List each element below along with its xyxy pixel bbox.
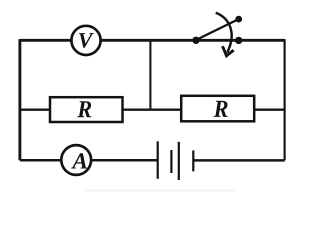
resistor R2 (right box) xyxy=(181,96,254,122)
switch closing motion arc arrow xyxy=(216,13,232,53)
scan artifact faint smudge xyxy=(85,190,235,192)
wire bottom right (battery to right edge) xyxy=(193,159,284,162)
wire right edge xyxy=(284,39,286,160)
ammeter A (meter on bottom wire) xyxy=(61,145,91,175)
switch S lever (open arm from pivot to upper contact) xyxy=(196,20,238,40)
switch fixed contact dot (right, on wire) xyxy=(235,37,242,44)
switch open-position contact dot (upper) xyxy=(235,16,242,23)
wire center vertical (node between resistors up to top wire) xyxy=(149,40,151,109)
switch pivot contact dot (left) xyxy=(192,37,199,44)
battery cell 1 negative plate (short) xyxy=(170,150,172,173)
wire top (node between V / switch row) xyxy=(20,39,285,42)
battery cell 1 positive plate (long) xyxy=(157,141,159,179)
wire middle row (through R1 and R2) xyxy=(20,108,285,110)
battery cell 2 negative plate (short) xyxy=(192,150,194,171)
wire left edge xyxy=(18,39,21,160)
switch arc arrowhead xyxy=(223,46,234,56)
resistor R1 (left box) xyxy=(50,97,123,122)
wire bottom left (battery to ammeter side) xyxy=(20,159,158,162)
battery cell 2 positive plate (long) xyxy=(178,142,180,180)
voltmeter V (meter on top wire) xyxy=(71,26,100,55)
